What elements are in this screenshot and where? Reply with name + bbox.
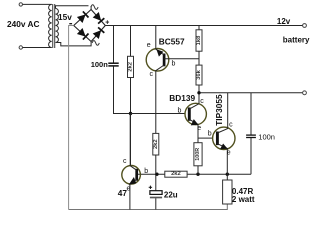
resistor 100R [194,143,202,166]
svg-text:15v: 15v [58,12,72,22]
wire 22u to rail [155,198,157,209]
transistor TIP3055 body [213,127,235,149]
junction emitter bus / 100R [196,173,199,176]
TIP3055 emitter arrow [220,144,228,150]
wire mains top [23,3,50,5]
transformer T1 core [52,4,54,48]
transistor BD139 body [185,103,206,124]
TIP3055 emitter (bottom) [217,144,227,175]
wire secondary top to bridge [56,6,89,9]
Q1 emitter arrow [129,177,137,185]
resistor 0.47R [223,180,232,204]
svg-text:b: b [144,168,148,175]
svg-text:c: c [123,158,127,165]
svg-text:e: e [227,149,231,156]
Q1 collector (top) [130,114,137,171]
wire divider top [198,26,200,30]
wire 100R to emitter bus [197,166,199,175]
junction emitter bus / divider [155,173,158,176]
svg-text:1k8: 1k8 [196,35,202,45]
wire 100n left top [113,26,115,63]
svg-text:b: b [172,60,176,67]
svg-text:TIP3055: TIP3055 [214,94,224,126]
wire 100n right bottom [250,138,252,174]
svg-text:e: e [197,125,201,132]
svg-text:240v AC: 240v AC [7,19,39,29]
wire BD139 emitter to TIP base [198,137,213,139]
svg-text:2k2: 2k2 [128,62,134,72]
Q1 base bar [135,169,138,181]
mains input terminal bottom [19,46,22,49]
wire 100n right top [250,93,252,135]
BC557 emitter (top) [156,26,164,56]
svg-text:22u: 22u [164,191,178,200]
capacitor 22u [150,191,162,198]
wire secondary bottom to bridge [56,42,92,46]
bridge rectifier frame [74,10,106,42]
mains input terminal top [19,3,22,6]
svg-text:36k: 36k [196,69,202,79]
transistor Q1 body [122,166,141,185]
BC557 collector (bottom) [156,65,164,133]
svg-text:100n: 100n [91,60,109,69]
capacitor 100n right [246,135,256,137]
BD139 emitter arrow [191,119,199,125]
bridge diode D1 [77,11,89,23]
wire negative rail from bridge [69,26,74,210]
transformer T1 secondary winding [56,9,59,43]
junction node A [129,112,132,115]
junction divider/rail [197,91,200,94]
BD139 collector (top) [189,104,199,109]
TIP3055 collector (top) [217,93,227,133]
wire 2k2 bottom to Q collector [130,78,132,166]
wire TIP emitter to 0.47R [226,174,228,180]
AC squiggle bottom [92,41,99,46]
BD139 emitter (bottom) [189,119,198,142]
svg-text:100R: 100R [195,148,201,161]
BC557 base wire [164,58,199,60]
wire 2k2 top [130,26,132,57]
wire bottom rail [69,204,228,210]
wire 2k2 to 22u [155,155,157,191]
capacitor 100n left [108,63,118,66]
TIP3055 base bar [216,132,219,146]
resistor 2k2 middle [153,133,159,155]
svg-text:2k2: 2k2 [153,139,159,149]
wire negative output rail [199,92,303,94]
resistor 36k [196,65,202,85]
svg-text:12v: 12v [277,17,291,26]
svg-text:c: c [200,98,204,105]
svg-text:e: e [127,186,131,193]
svg-text:2 watt: 2 watt [232,195,255,204]
BC557 emitter arrow [156,49,163,56]
wire divider mid [198,51,200,65]
wire divider bottom to BD139 collector [198,85,200,104]
svg-text:c: c [150,71,154,78]
svg-text:BC557: BC557 [159,37,185,47]
svg-text:100n: 100n [258,133,275,142]
Q1 emitter (bottom) [130,179,137,209]
bridge diode D4 [93,27,105,39]
svg-text:BD139: BD139 [169,93,195,103]
wire mains bottom [23,47,50,49]
bridge diode D2 [93,12,105,24]
svg-text:e: e [147,42,151,49]
AC squiggle top [91,5,98,10]
wire emitter bus [137,173,251,175]
transistor BC557 body [146,49,169,72]
resistor 2k2 horizontal [165,171,187,177]
svg-text:b: b [178,107,182,114]
wire positive top rail [105,25,302,27]
svg-text:c: c [229,122,233,129]
bridge diode D3 [77,28,89,40]
svg-text:battery: battery [283,36,310,45]
BD139 base bar [188,108,191,121]
wire node A to BD139 base [131,113,186,115]
battery positive terminal [303,24,307,28]
BC557 base bar [163,54,166,67]
resistor 1k8 [196,30,202,51]
svg-text:b: b [208,130,212,137]
capacitor 22u plus sign [149,186,152,189]
bridge minus sign [69,23,72,25]
battery negative terminal [303,91,307,95]
resistor 2k2 upper [128,56,134,77]
transformer T1 primary winding [49,4,52,47]
wire 100n left bottom [114,66,131,113]
svg-text:2k2: 2k2 [171,171,181,177]
junction emitter bus / TIP3055 emitter [226,173,229,176]
